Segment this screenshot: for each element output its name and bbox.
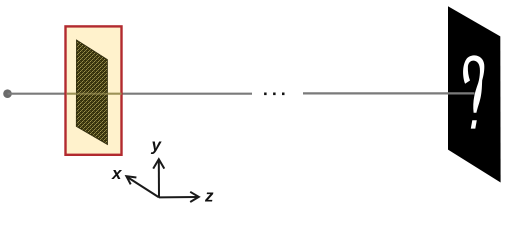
hatched tilted plate: [76, 40, 109, 145]
ellipsis dots: [264, 93, 284, 96]
axes: y axis: [126, 159, 198, 202]
question mark on screen: [463, 55, 484, 112]
aperture frame (red rectangle, cream fill): [66, 26, 122, 154]
wire: optical axis right segment: [303, 92, 475, 94]
x arrowhead: [126, 176, 136, 184]
wire: axis seen through frame (khaki band): [67, 93, 122, 95]
z arrowhead: [190, 192, 199, 202]
svg-text:x: x: [111, 164, 123, 183]
x axis: [128, 178, 159, 198]
z axis: [159, 196, 198, 198]
wire: optical axis left segment: [8, 93, 253, 95]
y arrowhead: [153, 159, 164, 168]
source dot: [3, 89, 12, 98]
question mark dot: [471, 120, 477, 128]
observation screen (black): [448, 6, 501, 182]
svg-text:z: z: [204, 187, 214, 206]
svg-text:y: y: [151, 136, 163, 155]
streak of axis seen through plate: [76, 93, 109, 95]
